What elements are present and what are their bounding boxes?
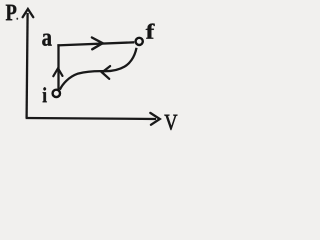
axis label V	[165, 115, 178, 130]
arrow right on a-f segment	[92, 38, 103, 50]
V axis arrowhead	[150, 113, 160, 125]
P axis (vertical)	[27, 13, 28, 118]
axis label P	[6, 5, 16, 21]
curve f to i	[60, 48, 137, 90]
arrow left on curve	[102, 66, 110, 79]
node i (open circle)	[53, 90, 60, 97]
ink speck after P	[16, 18, 18, 20]
node label f	[146, 24, 155, 39]
V axis (horizontal)	[26, 118, 156, 119]
arrow up on i-a segment	[53, 68, 62, 76]
P axis arrowhead	[23, 9, 34, 17]
wire a to f (horizontal segment)	[57, 42, 134, 45]
node label i	[43, 87, 47, 102]
wire i to a (vertical segment)	[57, 44, 59, 89]
node f (open circle)	[136, 38, 143, 45]
node label a	[42, 34, 51, 46]
